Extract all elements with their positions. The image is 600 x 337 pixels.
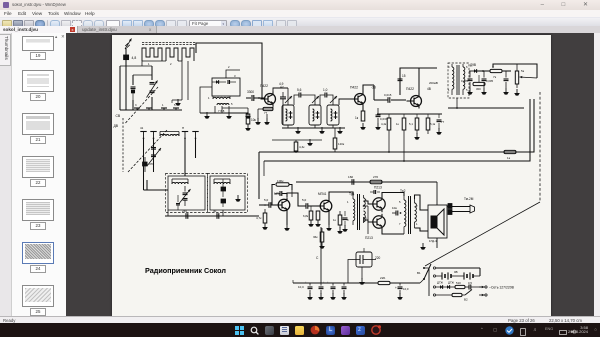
- capacitor C27: [318, 281, 325, 300]
- status bar: [0, 316, 600, 324]
- ground g4: [245, 112, 251, 119]
- coil L3: [182, 48, 194, 61]
- svg-text:1: 1: [347, 200, 349, 204]
- capacitor C22 feedback: [275, 191, 287, 196]
- resistor R7b: [396, 114, 406, 162]
- diode VD1 Д9В: [469, 63, 490, 73]
- wire T1 pins: [215, 106, 229, 113]
- filter tank Z3: [327, 105, 339, 125]
- svg-text:4: 4: [448, 65, 450, 69]
- capacitor C19: [481, 71, 493, 95]
- svg-text:4,7к: 4,7к: [256, 216, 262, 220]
- diode VD3: [443, 280, 454, 288]
- svg-text:5,1к: 5,1к: [430, 122, 436, 126]
- capacitor C17: [375, 108, 388, 130]
- speaker BA1: [429, 209, 444, 243]
- capacitor C1 4.8: [124, 55, 137, 60]
- capacitor C7 trimmer: [180, 186, 191, 206]
- resistor R17 36к: [313, 228, 325, 249]
- ground g3: [226, 112, 232, 119]
- wire T1 left: [200, 87, 212, 113]
- svg-text:1,0: 1,0: [323, 88, 328, 92]
- svg-text:7к: 7к: [493, 75, 497, 79]
- svg-text:1к: 1к: [396, 122, 400, 126]
- resistor R7d: [426, 114, 436, 134]
- svg-text:220: 220: [375, 256, 381, 260]
- svg-text:П: П: [182, 126, 184, 130]
- wire T3 to VT6: [364, 201, 373, 204]
- capacitor C29 10,0: [395, 283, 409, 300]
- potentiometer R10 volume: [514, 69, 537, 96]
- svg-text:4,8: 4,8: [132, 56, 137, 60]
- svg-text:10к: 10к: [251, 118, 257, 122]
- svg-text:4,4к: 4,4к: [381, 122, 387, 126]
- wire agc line: [215, 100, 248, 114]
- resistor R20 510: [450, 281, 465, 289]
- transistor VT6 П213: [369, 185, 385, 212]
- wire mixer input: [246, 97, 260, 99]
- battery GB1 cells КБС: [433, 270, 480, 280]
- tuning gang dashed link: [126, 87, 159, 123]
- svg-text:Радиоприемник Сокол: Радиоприемник Сокол: [145, 266, 226, 275]
- toolbar: [0, 17, 600, 27]
- coil L2: [166, 48, 178, 61]
- transformer T1 box: [212, 78, 240, 96]
- svg-text:300: 300: [476, 87, 481, 91]
- wire batt col: [424, 268, 429, 296]
- wire out right: [296, 181, 437, 183]
- headphone jack Тм-2М: [447, 197, 475, 215]
- svg-text:0,005: 0,005: [461, 79, 468, 83]
- svg-text:1: 1: [148, 62, 150, 66]
- svg-text:160: 160: [348, 175, 353, 179]
- ground VT1: [255, 114, 270, 125]
- window title bar: [0, 0, 600, 10]
- capacitor C5 variable osc: [147, 145, 161, 172]
- tab bar: [0, 26, 600, 33]
- resistor R11 1к rail: [504, 150, 516, 160]
- wire VT4 collector: [287, 190, 292, 197]
- switch SA2 B1: [417, 264, 431, 283]
- wire T4 sec bot: [415, 228, 429, 231]
- capacitor C11 series: [182, 209, 188, 219]
- svg-text:240: 240: [182, 209, 187, 213]
- svg-text:С: С: [316, 256, 319, 260]
- svg-text:41: 41: [140, 126, 144, 130]
- ground power: [420, 243, 426, 250]
- svg-text:П422: П422: [260, 84, 268, 88]
- band switch SA1 contacts: [140, 126, 199, 139]
- resistor R9b 300: [473, 75, 485, 91]
- svg-text:Д7Ж: Д7Ж: [437, 280, 443, 284]
- filter tank Z2: [309, 105, 321, 125]
- transformer T4 Тр2: [399, 189, 418, 234]
- svg-text:В1: В1: [417, 271, 421, 275]
- wire mains a: [471, 285, 515, 289]
- coil L4 switch: [160, 131, 179, 136]
- svg-text:Д7Ж: Д7Ж: [448, 280, 454, 284]
- wire T4 sec top: [415, 195, 429, 210]
- capacitor C30: [465, 281, 472, 290]
- svg-text:5,1: 5,1: [409, 122, 413, 126]
- transistor VT7 П213: [365, 213, 385, 239]
- osc coil box L5 shield: [166, 173, 208, 212]
- capacitor C6: [143, 157, 155, 172]
- svg-text:Тм-2М: Тм-2М: [464, 197, 474, 201]
- svg-text:1: 1: [448, 88, 450, 92]
- wire det out: [448, 98, 524, 109]
- wire VT6 collector to T4: [382, 192, 404, 196]
- resistor R14 4,7к: [256, 204, 268, 229]
- trimmer arrow Z2: [312, 96, 319, 103]
- wire C2 branch: [133, 66, 152, 110]
- svg-text:5: 5: [466, 88, 468, 92]
- band switch dashed: [114, 114, 124, 172]
- ground osc: [235, 195, 241, 202]
- svg-text:В2: В2: [464, 297, 468, 301]
- resistor R9: [482, 69, 511, 79]
- svg-text:1к: 1к: [333, 218, 337, 222]
- transformer T2 winding b: [463, 64, 468, 95]
- speaker BA1 box: [428, 205, 447, 238]
- wire to VT2: [339, 99, 354, 105]
- wire het top: [226, 65, 240, 78]
- wire top feed: [196, 43, 262, 98]
- svg-text:200мВ: 200мВ: [429, 81, 438, 85]
- capacitor C25 160: [348, 175, 354, 185]
- svg-text:1к: 1к: [355, 116, 359, 120]
- menu bar: [0, 10, 600, 17]
- svg-text:+: +: [395, 286, 397, 290]
- antenna WA1: [125, 38, 132, 49]
- ground VT4 e: [284, 224, 290, 231]
- capacitor C24a: [370, 190, 380, 194]
- capacitor C12 series: [213, 209, 219, 219]
- svg-text:2: 2: [416, 204, 418, 208]
- capacitor VT5 bypass: [342, 211, 348, 232]
- wire right drop: [436, 182, 438, 248]
- svg-text:Тр1: Тр1: [349, 192, 355, 196]
- switch row contacts: [134, 103, 179, 110]
- wire VT5 to T3: [329, 192, 353, 199]
- switch SA3 B2 row: [433, 289, 487, 301]
- ground bus left: [172, 100, 248, 113]
- trimmer arrow Z1: [285, 96, 292, 103]
- svg-text:2: 2: [170, 62, 172, 66]
- wire if stage2: [374, 85, 406, 103]
- trimmer arrow Z3: [330, 96, 337, 103]
- wire input loop: [120, 61, 182, 110]
- svg-text:220.: 220.: [380, 276, 386, 280]
- resistor R5 1к: [355, 111, 366, 130]
- resistor R2 10к: [245, 114, 256, 131]
- resistor VT5 load: [333, 211, 343, 234]
- capacitor C27c: [341, 283, 347, 300]
- svg-text:10в: 10в: [392, 206, 397, 210]
- capacitor C27b: [327, 281, 336, 300]
- capacitor C26 10,0: [298, 281, 313, 300]
- svg-text:7: 7: [399, 222, 401, 226]
- svg-text:П422: П422: [406, 87, 414, 91]
- svg-text:510: 510: [456, 281, 461, 285]
- wire c bus: [316, 227, 321, 283]
- transistor VT1 П422: [260, 82, 284, 107]
- wire supply bus: [348, 259, 378, 283]
- wire antenna down: [125, 48, 127, 110]
- wire if bus: [282, 125, 345, 128]
- ground g1: [175, 99, 181, 106]
- svg-text:ДВ: ДВ: [114, 124, 119, 128]
- capacitor C14 3300: [247, 90, 264, 101]
- wire coil taps down: [182, 53, 194, 97]
- svg-text:77: 77: [441, 120, 445, 124]
- resistor R12 4,3к: [294, 140, 305, 153]
- mech link volume switch: [425, 92, 540, 266]
- wire det in: [415, 73, 452, 75]
- svg-text:36к: 36к: [313, 235, 318, 239]
- resistor R7c: [409, 114, 420, 140]
- wire VT4 emitter: [286, 212, 288, 225]
- thumbnails side strip: [0, 33, 12, 316]
- transformer T2 shield dashed: [448, 63, 469, 98]
- resistor R16: [315, 211, 321, 227]
- svg-text:15: 15: [402, 74, 406, 78]
- svg-text:МП41: МП41: [318, 192, 327, 196]
- transistor VT2 П422: [350, 85, 376, 106]
- svg-text:П213: П213: [374, 185, 382, 189]
- resistor R18 270: [370, 175, 382, 184]
- svg-text:0,5: 0,5: [468, 281, 472, 285]
- svg-text:3: 3: [347, 218, 349, 222]
- capacitor C9: [221, 179, 226, 197]
- osc coil box L6 shield: [208, 173, 248, 212]
- wire VT5 em: [326, 213, 332, 230]
- svg-text:~Сеть 127/220В: ~Сеть 127/220В: [489, 285, 515, 289]
- ferrite rod magnetic antenna: [142, 42, 196, 44]
- diode VD0 in T1: [212, 74, 236, 84]
- wire coil bus: [142, 61, 182, 66]
- capacitor C23 5,0: [302, 198, 320, 209]
- wire osc entry: [144, 180, 169, 190]
- svg-text:4В: 4В: [427, 87, 431, 91]
- svg-text:5: 5: [231, 102, 233, 106]
- svg-text:СВ: СВ: [116, 114, 121, 118]
- svg-text:0,015: 0,015: [384, 93, 392, 97]
- capacitor C15 5,6: [288, 88, 315, 105]
- svg-text:1ГД-4: 1ГД-4: [429, 239, 437, 243]
- coil L6: [214, 179, 230, 184]
- svg-text:5к: 5к: [521, 69, 525, 73]
- capacitor C10: [221, 199, 226, 207]
- rail B: [264, 99, 530, 176]
- capacitor C21 5.0 input: [259, 198, 278, 208]
- tuning gang dashed 2: [128, 129, 168, 172]
- svg-text:270: 270: [373, 175, 378, 179]
- wire if top: [273, 88, 288, 105]
- wire bias bus: [377, 108, 442, 114]
- capacitor C28 220: [352, 248, 381, 285]
- transformer T1 winding a: [208, 96, 230, 100]
- svg-text:0,033: 0,033: [380, 117, 388, 121]
- svg-text:1: 1: [162, 103, 164, 107]
- svg-text:4,3к: 4,3к: [299, 145, 305, 149]
- svg-text:3: 3: [135, 103, 137, 107]
- wire stage link: [292, 193, 306, 206]
- wire VT3 collector: [418, 68, 420, 95]
- svg-text:100к: 100к: [277, 179, 284, 183]
- svg-text:2: 2: [228, 65, 230, 69]
- svg-text:П213: П213: [365, 236, 373, 240]
- svg-text:30: 30: [213, 209, 217, 213]
- resistor R6 120к: [333, 128, 345, 152]
- wire osc baseline: [165, 210, 259, 216]
- svg-text:9В: 9В: [454, 270, 458, 274]
- capacitor C24 10: [392, 206, 401, 216]
- transistor VT3 П422: [406, 81, 438, 109]
- wire pot loop: [492, 64, 537, 78]
- pin labels 7 6 8: [218, 109, 225, 113]
- svg-text:10,0: 10,0: [298, 285, 304, 289]
- svg-text:470: 470: [149, 162, 154, 166]
- svg-text:7 6 8: 7 6 8: [218, 109, 225, 113]
- wire switch drops: [144, 138, 196, 190]
- diode VD2 Д7Ж: [433, 280, 443, 288]
- wire VT2 leads: [363, 85, 374, 111]
- resistor R13 100к feedback: [272, 179, 292, 205]
- svg-text:5,0: 5,0: [302, 198, 307, 202]
- transformer T2 core: [457, 65, 459, 95]
- resistor R15: [303, 206, 314, 227]
- svg-text:1: 1: [208, 96, 210, 100]
- wire if gnd bus: [272, 139, 322, 146]
- transformer T2 winding a: [448, 64, 454, 95]
- svg-text:0,005: 0,005: [486, 79, 493, 83]
- svg-text:3300: 3300: [247, 90, 254, 94]
- resistor R7a: [381, 114, 391, 153]
- capacitor C8: [176, 195, 180, 210]
- resistor R3 1.5к: [258, 106, 273, 119]
- filter tank Z1: [282, 105, 294, 125]
- svg-text:6: 6: [466, 65, 468, 69]
- ground Z1: [295, 127, 301, 134]
- svg-text:5: 5: [399, 200, 401, 204]
- Windows taskbar: [0, 323, 600, 337]
- white document page: [112, 35, 551, 316]
- svg-text:3: 3: [234, 74, 236, 78]
- wire T3 to VT7: [364, 220, 373, 222]
- capacitor C20: [503, 71, 509, 95]
- capacitor A2: [280, 85, 286, 125]
- transistor VT5 МП41: [316, 192, 332, 214]
- svg-text:10,0: 10,0: [403, 287, 409, 291]
- coil L1: [142, 48, 162, 61]
- transistor VT4 МП41: [274, 192, 290, 213]
- capacitor C18: [461, 71, 473, 95]
- document title: [145, 266, 226, 275]
- transformer T1 winding b: [217, 102, 233, 106]
- svg-text:6,8к: 6,8к: [303, 214, 309, 218]
- svg-text:5,0: 5,0: [264, 198, 269, 202]
- capacitor C2: [131, 87, 136, 100]
- ground Z3: [337, 127, 343, 134]
- svg-text:120к: 120к: [338, 142, 345, 146]
- svg-text:Д9В: Д9В: [470, 63, 476, 67]
- battery GB1 row1: [433, 266, 480, 275]
- capacitor C17b: [436, 114, 444, 135]
- wire bottom bus: [293, 280, 356, 283]
- svg-text:П422: П422: [350, 85, 358, 89]
- svg-text:1: 1: [416, 222, 418, 226]
- svg-text:6: 6: [365, 216, 367, 220]
- transformer T3 Тр1: [347, 192, 367, 230]
- svg-text:-3В: -3В: [371, 85, 376, 89]
- capacitor C16 1,0: [320, 88, 333, 105]
- wire ant col down: [182, 97, 188, 100]
- capacitor C3 variable: [147, 80, 158, 97]
- svg-text:5,6: 5,6: [297, 88, 302, 92]
- wire T3 mid: [363, 205, 368, 234]
- wire top agc: [398, 68, 438, 95]
- wire VT7 collector to T4: [382, 230, 404, 234]
- coil L5: [172, 179, 188, 184]
- rail A: [259, 99, 534, 199]
- right scrollbar: [594, 33, 600, 316]
- ground Z2: [319, 127, 325, 134]
- svg-text:1к: 1к: [507, 156, 511, 160]
- resistor R19 220: [378, 276, 420, 285]
- ground g2: [204, 112, 210, 119]
